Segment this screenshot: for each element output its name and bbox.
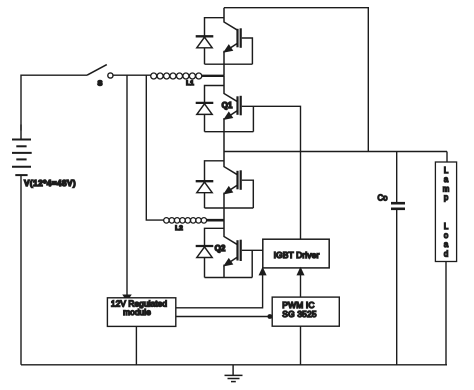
switch S bbox=[87, 65, 113, 79]
svg-text:L2: L2 bbox=[175, 225, 183, 232]
svg-text:L1: L1 bbox=[186, 80, 194, 87]
wire: Q1 gate drop to loop bbox=[252, 106, 254, 131]
wire: Co branch upper bbox=[396, 152, 398, 203]
IGBT Q2 bbox=[224, 220, 241, 277]
diode D1 bbox=[196, 36, 214, 48]
wire: mid rail bbox=[224, 151, 447, 153]
wire: top rail bbox=[224, 8, 368, 152]
wire: drop to 12V module bbox=[126, 75, 128, 296]
wire: switch to L1 bbox=[113, 74, 151, 76]
svg-text:o: o bbox=[444, 231, 449, 240]
IGBT T3 bbox=[224, 152, 241, 221]
wire: T3 loop left lower bbox=[204, 193, 206, 208]
box: IGBT Driver U2 bbox=[263, 239, 329, 268]
box: lamp load bbox=[435, 162, 456, 262]
wire: lamp bottom to rail bbox=[445, 262, 447, 365]
arrow: into driver bottom bbox=[298, 268, 304, 274]
wire: battery positive up to switch bbox=[20, 125, 22, 140]
wire: L1 to bridge node A bbox=[202, 75, 225, 77]
wire: Co branch lower bbox=[396, 210, 398, 365]
wire: L2 to node B bbox=[206, 219, 225, 222]
wire: Q2 gate to driver left bbox=[242, 249, 263, 251]
junction dot at PWM input bbox=[267, 314, 272, 319]
wire: Q1 gate to IGBT driver bbox=[242, 106, 301, 239]
wire: 12V module output to PWM bbox=[176, 316, 271, 318]
svg-text:Co: Co bbox=[378, 194, 389, 203]
wire: T3 loop top bbox=[205, 161, 225, 181]
box: 12V Regulated module U4 bbox=[107, 298, 175, 327]
wire: 12V module output to driver bbox=[176, 274, 263, 308]
wire: bottom rail bbox=[21, 364, 447, 366]
diode D2 bbox=[196, 103, 214, 115]
wire: Q1 loop top bbox=[205, 86, 225, 103]
svg-text:a: a bbox=[444, 240, 449, 249]
ground bbox=[225, 365, 243, 382]
wire: PWM to driver bbox=[300, 274, 302, 298]
wire: Q2 loop left lower bbox=[204, 258, 206, 278]
svg-text:module: module bbox=[123, 307, 151, 317]
svg-text:p: p bbox=[444, 193, 449, 202]
wire: Q2 gate drop to loop bbox=[251, 250, 253, 277]
box: PWM IC SG 3525 U3 bbox=[272, 297, 339, 326]
svg-text:Q1: Q1 bbox=[222, 101, 233, 110]
wire: battery negative to bottom rail bbox=[20, 175, 22, 365]
svg-text:a: a bbox=[444, 175, 449, 184]
battery B1 bbox=[12, 140, 32, 176]
svg-text:IGBT Driver: IGBT Driver bbox=[274, 250, 320, 260]
arrow: into driver bottom left bbox=[260, 268, 266, 274]
wire: T1 loop left lower bbox=[204, 48, 206, 64]
inductor L2 bbox=[164, 218, 207, 224]
svg-text:S: S bbox=[98, 79, 103, 88]
wire: T1 loop top bbox=[205, 18, 225, 37]
diode D4 bbox=[196, 246, 214, 258]
svg-text:m: m bbox=[443, 184, 450, 193]
wire: T1 gate loop bbox=[242, 38, 253, 64]
inductor L1 bbox=[151, 73, 202, 79]
capacitor Co bbox=[391, 203, 405, 209]
diode D3 bbox=[196, 181, 214, 193]
wire: Q1 loop left lower bbox=[204, 114, 206, 131]
wire: drop to L2 bbox=[146, 75, 164, 220]
wire: Q2 loop top bbox=[205, 228, 225, 246]
svg-text:L: L bbox=[444, 222, 449, 231]
svg-text:L: L bbox=[444, 166, 449, 175]
IGBT T1 bbox=[224, 8, 241, 76]
wire: PWM bottom to rail bbox=[300, 326, 302, 365]
wire: rail to lamp top bbox=[446, 152, 448, 163]
svg-text:SG 3525: SG 3525 bbox=[282, 309, 317, 319]
wire: T1 loop bottom bbox=[205, 63, 253, 65]
svg-text:Q2: Q2 bbox=[215, 244, 226, 253]
IGBT Q1 bbox=[224, 76, 241, 152]
svg-text:V(12*4=48V): V(12*4=48V) bbox=[24, 179, 76, 188]
wire: Q2 loop bottom bbox=[205, 277, 253, 279]
wire: Q1 loop bottom bbox=[205, 131, 254, 133]
wire: T3 gate loop bbox=[242, 180, 254, 208]
svg-text:d: d bbox=[444, 249, 448, 258]
label Lamp Load vertical bbox=[443, 166, 450, 258]
wire: module bottom to rail bbox=[135, 327, 137, 365]
wire: T3 loop bottom bbox=[205, 207, 254, 209]
arrow: into 12V module top bbox=[124, 295, 131, 300]
